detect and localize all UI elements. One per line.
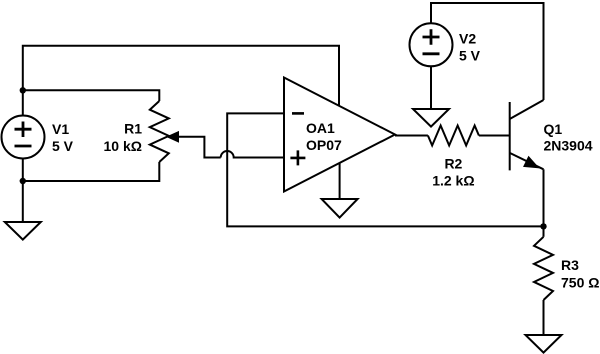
node junction emitter / feedback / R3 xyxy=(540,223,546,229)
wire op-amp output to R2 xyxy=(395,135,428,137)
wire Q1 emitter down to node xyxy=(543,169,545,237)
svg-text:R1: R1 xyxy=(124,121,142,137)
wire R2 to Q1 base xyxy=(479,135,510,137)
svg-text:Q1: Q1 xyxy=(544,121,563,137)
wire R1 wiper to op-amp + input (with step) xyxy=(170,137,221,158)
svg-text:OP07: OP07 xyxy=(306,137,342,153)
wire V2 bottom to ground xyxy=(430,66,432,109)
node junction V1-R1 top xyxy=(20,87,26,93)
transistor Q1 2N3904 xyxy=(510,100,593,170)
wire feedback: op-amp - input, down and along bottom to emitter node xyxy=(227,113,543,226)
resistor R1 (potentiometer body) 10 kΩ xyxy=(104,101,169,162)
svg-text:2N3904: 2N3904 xyxy=(544,138,593,154)
svg-text:5 V: 5 V xyxy=(459,48,481,64)
resistor R3 750 Ω xyxy=(534,237,599,300)
wire R3 bottom to ground xyxy=(543,300,545,335)
svg-text:750 Ω: 750 Ω xyxy=(561,275,599,291)
svg-text:V1: V1 xyxy=(52,121,69,137)
wire V2 top rail to Q1 collector xyxy=(431,3,544,100)
wire op-amp ground stub xyxy=(339,163,341,199)
svg-text:5 V: 5 V xyxy=(52,138,74,154)
svg-text:10 kΩ: 10 kΩ xyxy=(104,138,142,154)
svg-text:R3: R3 xyxy=(561,257,579,273)
voltage source V1 xyxy=(2,116,74,159)
wiper arrow of R1 xyxy=(167,132,179,142)
svg-text:OA1: OA1 xyxy=(306,120,335,136)
ground below V2 xyxy=(413,109,449,127)
wire V1 bottom to ground xyxy=(22,159,24,223)
wire top-left rail from V1 top to op-amp V+ xyxy=(23,46,339,116)
op-amp OA1 (OP07) xyxy=(284,78,395,192)
svg-text:R2: R2 xyxy=(444,155,462,171)
voltage source V2 xyxy=(410,23,481,66)
wire R1 top xyxy=(23,90,160,101)
wire R1 bottom xyxy=(23,162,160,181)
wire hop over feedback line xyxy=(221,151,284,158)
svg-text:1.2 kΩ: 1.2 kΩ xyxy=(432,173,474,189)
ground below V1 xyxy=(5,222,41,240)
resistor R2 1.2 kΩ xyxy=(428,126,479,189)
node junction V1-R1 bottom xyxy=(20,178,26,184)
ground below R3 xyxy=(526,335,562,353)
ground below op-amp xyxy=(322,199,358,218)
svg-text:V2: V2 xyxy=(459,31,476,47)
